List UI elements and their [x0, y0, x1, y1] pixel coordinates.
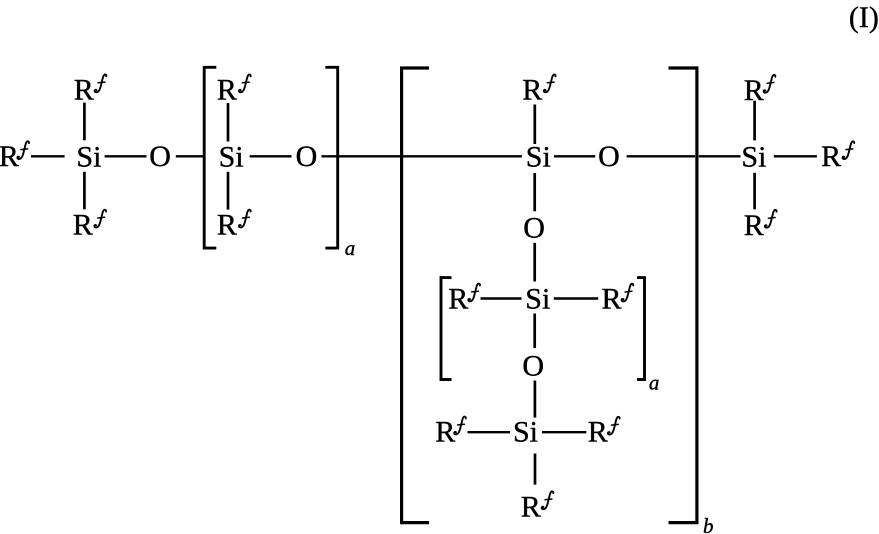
- superscript f of Rf north Si6: [764, 75, 776, 93]
- bracket close of repeat a: [325, 67, 337, 248]
- bond Si3-O3: [554, 155, 595, 157]
- svg-text:R: R: [521, 490, 541, 523]
- superscript f of Rf north Si2: [239, 75, 251, 93]
- superscript f of Rf west Si5: [454, 417, 466, 435]
- bond O1-bracket a: [176, 155, 203, 157]
- svg-text:R: R: [74, 73, 94, 106]
- bracket close of inner repeat a: [637, 278, 645, 380]
- bond Si1-Rf south: [83, 172, 86, 210]
- bond Rf-Si1: [31, 155, 65, 157]
- bracket open of repeat b: [402, 68, 429, 523]
- svg-text:O: O: [598, 140, 620, 173]
- bond Si6-Rf east: [774, 155, 817, 157]
- bond Rf-Si4 west: [481, 297, 522, 299]
- bond Si5-Rf south: [534, 454, 537, 485]
- svg-text:R: R: [522, 73, 542, 106]
- bond Si4-Rf east: [554, 297, 598, 299]
- superscript f of Rf north Si1: [95, 75, 107, 93]
- bond Rf north-Si6: [753, 101, 756, 141]
- superscript f of Rf south Si5: [542, 491, 554, 509]
- bond Rf north-Si3: [533, 105, 536, 145]
- svg-text:O: O: [523, 211, 545, 244]
- svg-text:R: R: [588, 416, 608, 449]
- bracket open of repeat a: [204, 67, 216, 248]
- svg-text:R: R: [73, 209, 93, 242]
- bond Si2-Rf south: [227, 172, 230, 210]
- svg-text:O: O: [296, 140, 318, 173]
- bond Si3-O4: [533, 173, 536, 211]
- svg-text:R: R: [0, 140, 19, 173]
- svg-text:R: R: [217, 73, 237, 106]
- svg-text:R: R: [821, 140, 841, 173]
- svg-text:(I): (I): [849, 1, 879, 34]
- bond O5-Si5: [534, 381, 537, 418]
- superscript f of Rf east Si5: [608, 417, 620, 435]
- bond Si5-Rf east: [542, 431, 586, 433]
- superscript f of Rf north Si3: [544, 75, 556, 93]
- superscript f of Rf south Si2: [239, 210, 251, 228]
- svg-text:R: R: [744, 209, 764, 242]
- svg-text:a: a: [345, 236, 356, 260]
- bond Rf north-Si2: [227, 103, 230, 142]
- svg-text:R: R: [217, 209, 237, 242]
- bracket close of repeat b: [669, 68, 697, 523]
- superscript f of Rf south Si6: [765, 210, 777, 228]
- bond bracket b-Si6: [699, 155, 741, 157]
- svg-text:O: O: [149, 140, 171, 173]
- bracket open of inner repeat a: [441, 278, 452, 380]
- svg-text:Si: Si: [525, 283, 550, 316]
- svg-text:R: R: [448, 283, 468, 316]
- superscript f of R west Si1: [17, 141, 29, 159]
- svg-text:a: a: [649, 371, 660, 395]
- svg-text:b: b: [703, 514, 714, 534]
- svg-text:Si: Si: [219, 140, 244, 173]
- bond O3-bracket b: [627, 155, 695, 157]
- svg-text:R: R: [602, 283, 622, 316]
- bond O2 to Si3 (through brackets): [322, 155, 522, 157]
- bond Si4-O5: [533, 314, 536, 349]
- bond Rf-Si5 west: [468, 431, 511, 433]
- bond Si6-Rf south: [753, 173, 756, 210]
- bond Si2-O2: [250, 155, 292, 157]
- superscript f of Rf east Si6: [843, 141, 855, 159]
- bond O4-Si4: [533, 243, 536, 282]
- svg-text:R: R: [435, 416, 455, 449]
- bond Rf north-Si1: [83, 103, 86, 141]
- bond Si1-O1: [105, 155, 147, 157]
- superscript f of Rf west Si4: [468, 284, 480, 302]
- superscript f of Rf south Si1: [94, 210, 106, 228]
- svg-text:Si: Si: [76, 140, 101, 173]
- superscript f of Rf east Si4: [622, 284, 634, 302]
- svg-text:Si: Si: [513, 416, 538, 449]
- svg-text:Si: Si: [741, 140, 766, 173]
- svg-text:O: O: [522, 350, 544, 383]
- svg-text:Si: Si: [526, 140, 551, 173]
